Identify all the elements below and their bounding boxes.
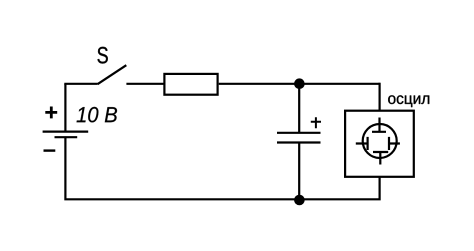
node: top junction <box>294 78 305 89</box>
label S <box>98 47 108 64</box>
CRT right deflection plate (lead and bar) <box>389 137 400 150</box>
wire: capacitor bottom lead <box>298 143 300 200</box>
resistor R1 <box>164 74 217 95</box>
battery GB1 negative plate (short) <box>55 136 78 138</box>
node: bottom junction <box>294 195 305 206</box>
wire: left vertical from top corner down to battery positive plate <box>64 84 66 132</box>
label: battery polarity + <box>45 107 57 119</box>
wire: bottom junction to oscilloscope bottom lead <box>299 177 379 199</box>
CRT bottom deflection plate (lead and bar) <box>373 152 388 165</box>
CRT left deflection plate (lead and bar) <box>356 137 368 150</box>
label: battery polarity − <box>44 149 56 151</box>
capacitor C1 top plate <box>277 132 321 134</box>
battery GB1 positive plate (long) <box>43 131 89 133</box>
switch S blade (open) <box>98 65 127 84</box>
wire: switch right contact to resistor <box>126 83 164 85</box>
wire: capacitor top lead <box>298 84 300 133</box>
label: осцил (oscilloscope) <box>388 95 429 107</box>
label: capacitor polarity + <box>311 117 321 128</box>
wire: resistor to top-right corner <box>219 83 380 85</box>
wire: battery negative down and bottom run to bottom junction <box>65 137 299 199</box>
wire: top-left horizontal from battery corner to switch pivot <box>64 83 97 85</box>
capacitor C1 bottom plate <box>277 141 321 143</box>
wire: oscilloscope top lead (corner down into box) <box>379 83 381 110</box>
oscilloscope CRT circle <box>363 124 397 158</box>
label: battery voltage 10 В <box>77 107 117 123</box>
CRT top deflection plate (lead and bar) <box>372 118 386 132</box>
oscilloscope U1 box <box>345 111 414 177</box>
